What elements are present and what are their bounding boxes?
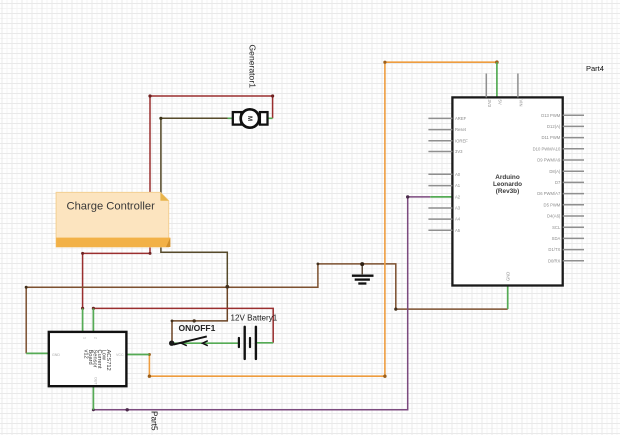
battery 12V Battery1 — [238, 326, 257, 361]
svg-text:SDA: SDA — [552, 236, 561, 241]
svg-text:Generator1: Generator1 — [247, 45, 257, 89]
svg-text:D13 PWM: D13 PWM — [541, 113, 561, 118]
svg-text:(Rev3b): (Rev3b) — [496, 188, 519, 195]
svg-text:A2: A2 — [455, 195, 461, 200]
svg-text:D11 PWM: D11 PWM — [542, 135, 561, 140]
svg-text:3V3: 3V3 — [455, 149, 463, 154]
svg-text:Charge Controller: Charge Controller — [67, 201, 156, 213]
svg-text:Part4: Part4 — [586, 64, 604, 73]
wire red: ACS712 pin2 to battery + — [93, 308, 273, 342]
junction dots red wire — [81, 94, 274, 310]
sticky note: Charge Controller — [56, 192, 170, 247]
svg-text:A1: A1 — [455, 183, 461, 188]
svg-text:D8(A): D8(A) — [549, 169, 561, 174]
switch ON/OFF1 — [169, 336, 208, 346]
arduino U1 Leonardo — [452, 97, 562, 285]
svg-text:12V Battery1: 12V Battery1 — [231, 314, 278, 323]
wire brown branch: GND junction to switch — [172, 287, 227, 343]
wire green: switch to battery - — [172, 342, 239, 344]
green leg battery + — [256, 342, 273, 344]
ground symbol — [352, 262, 374, 283]
svg-text:Arduino: Arduino — [495, 174, 520, 181]
svg-text:A4: A4 — [455, 217, 461, 222]
svg-text:1: 1 — [83, 337, 87, 339]
svg-text:ON/OFF1: ON/OFF1 — [179, 323, 216, 333]
arduino left pin labels — [455, 116, 468, 233]
svg-text:Part5: Part5 — [150, 411, 159, 431]
ACS712 green pin legs — [26, 308, 149, 410]
svg-text:M: M — [246, 116, 252, 121]
svg-text:VIN: VIN — [519, 100, 524, 107]
svg-text:Leonardo: Leonardo — [493, 181, 522, 188]
svg-text:D6 PWM/A7: D6 PWM/A7 — [537, 191, 561, 196]
bend dot red wire B — [92, 307, 95, 310]
arduino top pin legs — [486, 74, 518, 98]
svg-text:IOREF: IOREF — [455, 138, 468, 143]
arduino top pin labels — [487, 100, 524, 282]
svg-text:A0: A0 — [455, 172, 461, 177]
svg-text:SCL: SCL — [552, 225, 561, 230]
bend dots purple wire — [92, 195, 410, 411]
svg-text:Reset: Reset — [455, 127, 467, 132]
wire purple: ACS712 OUT to arduino A2 — [93, 197, 430, 410]
svg-text:A3: A3 — [455, 206, 461, 211]
wire red: generator+ to ACS712 pin1 (behind note) — [83, 96, 273, 308]
svg-text:D0/RX: D0/RX — [548, 258, 561, 263]
wire brown GND net: arduino GND / ground symbol / ACS712 GND — [26, 264, 508, 354]
motor Generator1 — [228, 109, 273, 127]
junction dots brown net — [25, 263, 398, 323]
svg-text:5V: 5V — [498, 100, 503, 105]
svg-text:D1/TX: D1/TX — [548, 247, 560, 252]
bend dots orange wire — [148, 60, 499, 378]
ACS712 current sensor board — [49, 332, 127, 386]
wire orange: ACS712 VCC to arduino 5V — [149, 62, 497, 376]
svg-text:OUT: OUT — [93, 377, 97, 385]
arduino left pin legs — [428, 118, 452, 230]
svg-text:D10 PWM/A10: D10 PWM/A10 — [533, 146, 561, 151]
bend dot olive wire — [159, 117, 162, 120]
svg-text:D7: D7 — [555, 180, 561, 185]
arduino right pin legs — [563, 115, 584, 261]
arduino green legs: 5V top, A2 left, GND bottom — [430, 62, 507, 309]
arduino right pin labels — [533, 113, 561, 264]
svg-text:GND: GND — [505, 272, 510, 281]
svg-text:D9 PWM/A9: D9 PWM/A9 — [537, 158, 561, 163]
wire olive: generator- to GND junction (behind note) — [161, 118, 233, 286]
svg-text:GND: GND — [52, 353, 60, 357]
svg-text:A5: A5 — [455, 228, 461, 233]
svg-text:D12(A): D12(A) — [547, 124, 561, 129]
svg-text:2: 2 — [93, 337, 97, 339]
svg-text:VCC: VCC — [116, 353, 124, 357]
svg-text:AREF: AREF — [455, 116, 467, 121]
svg-text:3V3: 3V3 — [487, 100, 492, 108]
svg-text:D5 PWM: D5 PWM — [544, 202, 561, 207]
svg-text:D4(A6): D4(A6) — [547, 214, 561, 219]
